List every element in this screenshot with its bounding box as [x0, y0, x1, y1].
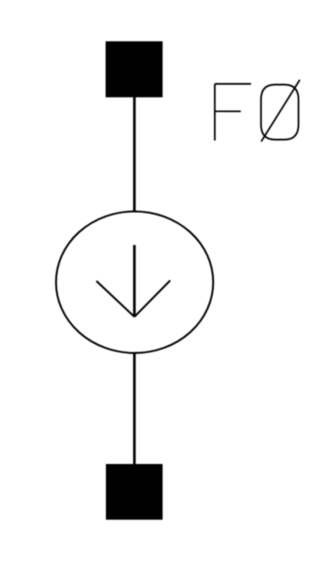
current source F0 body (circle) — [56, 211, 213, 353]
terminal pad (top node) — [106, 41, 163, 97]
arrow head right wing — [134, 280, 170, 316]
label F0: slashed zero — [261, 80, 300, 142]
arrow shaft — [133, 245, 136, 317]
terminal pad (bottom node) — [106, 464, 163, 520]
arrow head left wing — [96, 281, 134, 317]
wire (top terminal to current source) — [133, 96, 136, 212]
label F0: letter F — [215, 84, 251, 141]
wire (current source to bottom terminal) — [133, 353, 136, 466]
